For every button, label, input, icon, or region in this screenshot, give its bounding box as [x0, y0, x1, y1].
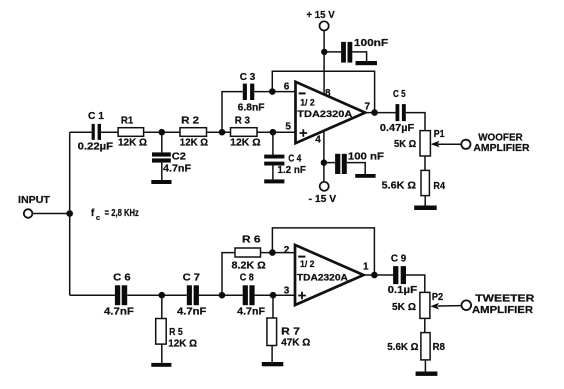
terminal -15V: [309, 182, 337, 205]
ground (C4): [264, 179, 284, 183]
wiper arrow P2: [430, 303, 461, 310]
svg-text:R8: R8: [433, 342, 446, 353]
svg-text:5.6K Ω: 5.6K Ω: [382, 181, 416, 192]
capacitor C2: [152, 151, 191, 174]
svg-text:R1: R1: [121, 116, 134, 127]
svg-text:c: c: [96, 213, 100, 222]
svg-text:6.8nF: 6.8nF: [238, 102, 265, 113]
resistor R3: [230, 116, 260, 149]
wire node B up to C3: [222, 92, 243, 133]
wire C7 to C8: [199, 294, 243, 296]
node -15V junction: [321, 159, 327, 165]
svg-text:AMPLIFIER: AMPLIFIER: [473, 143, 530, 154]
svg-text:0.1µF: 0.1µF: [388, 285, 418, 296]
svg-text:47K Ω: 47K Ω: [281, 337, 310, 348]
node pin2 junction: [269, 249, 276, 256]
wire node F to R7: [272, 295, 274, 318]
ground (R5): [151, 363, 171, 367]
node F (C8/R7/pin3): [270, 292, 277, 299]
node input junction: [66, 210, 73, 217]
wiper arrow P1: [431, 141, 462, 148]
capacitor C8: [237, 272, 265, 317]
wire R6 to pin 2: [261, 252, 296, 254]
op-amp U1b 1/2 TDA2320A: [284, 245, 369, 305]
resistor R7: [267, 318, 310, 348]
wire R7 to ground: [271, 346, 273, 363]
resistor R4: [382, 170, 446, 195]
svg-text:TWEETER: TWEETER: [475, 294, 535, 305]
wire feedback op-amp U1b: [272, 228, 374, 275]
potentiometer P2: [392, 292, 443, 318]
svg-text:3: 3: [284, 286, 290, 297]
svg-text:8: 8: [325, 88, 331, 99]
wire node A to C2: [161, 132, 163, 152]
capacitor 100nF (bottom): [335, 151, 384, 174]
svg-text:1: 1: [363, 262, 369, 273]
wire output U1b to C9: [364, 274, 394, 276]
wire main left vertical: [69, 132, 71, 295]
wire R4 to ground: [424, 196, 426, 206]
resistor R8: [387, 333, 445, 360]
svg-text:5.6K Ω: 5.6K Ω: [387, 342, 418, 353]
terminal +15V: [306, 10, 335, 31]
svg-text:+ 15 V: + 15 V: [306, 10, 335, 21]
svg-text:100nF: 100nF: [354, 38, 388, 49]
svg-text:TDA2320A: TDA2320A: [297, 273, 348, 283]
ground (bottom 100nF): [355, 174, 375, 178]
svg-text:INPUT: INPUT: [18, 195, 50, 206]
svg-text:12K Ω: 12K Ω: [168, 339, 197, 350]
wire -15V node to decoupling cap: [324, 162, 335, 164]
wire +15V to pin 8: [323, 30, 325, 95]
wire output U1a to C5: [365, 112, 395, 114]
capacitor C4: [264, 153, 306, 176]
ground (R8): [416, 372, 438, 376]
node output U1a: [371, 109, 378, 116]
svg-text:5K Ω: 5K Ω: [394, 139, 416, 150]
svg-text:P2: P2: [432, 292, 444, 303]
svg-text:0.22µF: 0.22µF: [78, 142, 114, 153]
svg-text:C 6: C 6: [113, 272, 131, 283]
node C (R3/C4/pin5): [270, 129, 277, 136]
label fc = 2,8 KHz: [91, 207, 139, 222]
svg-text:0.47µF: 0.47µF: [380, 123, 414, 134]
svg-text:C 4: C 4: [288, 153, 301, 164]
svg-text:4.7nF: 4.7nF: [163, 164, 191, 175]
capacitor 100nF (top): [341, 38, 388, 63]
svg-text:C 1: C 1: [88, 111, 104, 122]
wire R1 to R2: [144, 131, 180, 133]
node B (R2/R3/C3): [219, 129, 226, 136]
svg-text:12K Ω: 12K Ω: [180, 138, 208, 149]
svg-text:C 3: C 3: [240, 72, 256, 83]
ground (R7): [262, 362, 284, 366]
wire bottom row left: [70, 294, 115, 296]
terminal woofer output: [461, 132, 530, 154]
capacitor C7: [177, 272, 206, 317]
wire cap to ground (bottom): [347, 163, 365, 174]
svg-text:TDA2320A: TDA2320A: [297, 109, 352, 119]
wire cap to ground (top): [352, 52, 366, 61]
svg-text:4.7nF: 4.7nF: [104, 306, 134, 317]
wire C5 to P1: [406, 113, 425, 131]
svg-text:P1: P1: [434, 129, 445, 140]
input terminal: [18, 195, 50, 218]
resistor R2: [180, 115, 208, 148]
capacitor C1: [78, 111, 114, 153]
svg-text:R 7: R 7: [281, 326, 300, 337]
resistor R5: [156, 319, 197, 350]
wire pin 4 to -15V: [323, 131, 325, 182]
svg-text:8.2K Ω: 8.2K Ω: [232, 261, 266, 272]
svg-text:f: f: [91, 207, 95, 219]
op-amp U1a 1/2 TDA2320A: [284, 82, 371, 146]
svg-text:7: 7: [365, 102, 371, 113]
svg-text:C 7: C 7: [183, 272, 201, 283]
wire R5 to ground: [161, 344, 163, 363]
svg-text:5: 5: [285, 122, 291, 133]
svg-text:5K Ω: 5K Ω: [392, 302, 416, 313]
capacitor C5: [380, 89, 414, 134]
wire C1 to R1: [101, 131, 118, 133]
resistor R1: [118, 116, 147, 149]
node +15V junction: [321, 49, 327, 55]
ground (R4): [414, 206, 437, 211]
node D (C6/C7/R5): [159, 292, 166, 299]
svg-text:AMPLIFIER: AMPLIFIER: [472, 305, 534, 316]
wire C8 to pin 3: [255, 294, 296, 296]
ground (C2): [151, 180, 171, 184]
svg-text:6: 6: [284, 82, 290, 93]
node E (C7/C8/R6): [219, 292, 226, 299]
svg-text:12K Ω: 12K Ω: [230, 138, 260, 149]
wire node D to R5: [161, 295, 163, 318]
capacitor C9: [388, 253, 418, 296]
node pin6 junction: [269, 88, 276, 95]
svg-text:1.2 nF: 1.2 nF: [277, 165, 306, 176]
svg-text:100 nF: 100 nF: [348, 151, 384, 162]
capacitor C3: [238, 72, 265, 114]
resistor R6: [232, 235, 266, 272]
svg-text:R4: R4: [433, 181, 445, 192]
svg-text:R 2: R 2: [181, 115, 200, 126]
svg-text:C 9: C 9: [391, 253, 407, 264]
wire input to junction: [33, 213, 70, 215]
node output U1b: [371, 272, 378, 279]
wire top row left: [70, 131, 92, 133]
wire node C to C4: [272, 132, 274, 154]
svg-text:= 2,8 KHz: = 2,8 KHz: [105, 208, 139, 219]
wire C2 to ground: [161, 163, 163, 180]
svg-text:4.7nF: 4.7nF: [237, 306, 265, 317]
node A (R1/R2/C2): [159, 129, 166, 136]
svg-text:4.7nF: 4.7nF: [177, 306, 206, 317]
svg-text:WOOFER: WOOFER: [478, 132, 523, 143]
wire R8 to ground: [424, 360, 426, 372]
ground (top 100nF): [356, 61, 378, 65]
svg-text:1/ 2: 1/ 2: [300, 98, 315, 108]
svg-text:1/ 2: 1/ 2: [300, 259, 315, 269]
capacitor C6: [104, 272, 134, 317]
wire R2 to R3: [207, 131, 231, 133]
wire R3 to pin 5: [257, 131, 295, 133]
svg-text:R 6: R 6: [242, 235, 261, 246]
wire node E up to R6: [222, 253, 235, 296]
svg-text:2: 2: [284, 245, 290, 256]
wire feedback op-amp U1a: [272, 71, 374, 112]
svg-text:R 5: R 5: [169, 327, 183, 338]
wire C9 to P2: [406, 275, 425, 292]
wire P1 to R4: [424, 156, 426, 171]
wire +15V node to decoupling cap: [324, 51, 341, 53]
svg-text:R 3: R 3: [235, 116, 251, 127]
potentiometer P1: [394, 129, 445, 156]
svg-text:- 15 V: - 15 V: [309, 194, 337, 205]
svg-text:C2: C2: [172, 151, 187, 162]
wire C3 to pin 6: [254, 91, 295, 93]
terminal tweeter output: [462, 294, 536, 317]
wire C4 to ground: [272, 166, 274, 180]
svg-text:C 8: C 8: [240, 272, 254, 283]
wire P2 to R8: [424, 318, 426, 332]
wire C6 to C7: [127, 294, 187, 296]
svg-text:12K Ω: 12K Ω: [118, 137, 147, 148]
svg-text:C 5: C 5: [393, 89, 406, 100]
svg-text:4: 4: [315, 134, 321, 145]
